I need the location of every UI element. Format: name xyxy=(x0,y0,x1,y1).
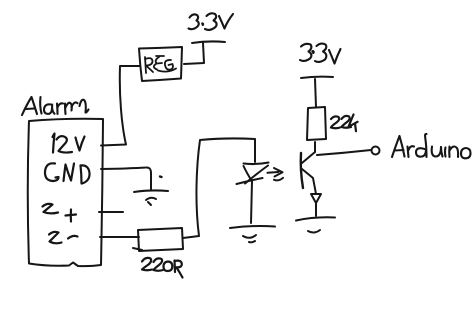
label 220R xyxy=(142,258,183,278)
transistor Q1 base bar xyxy=(301,153,303,188)
wire Z- pin to resistor 220R xyxy=(100,236,139,238)
power rail 3.3V (top) xyxy=(192,41,225,43)
wire LED cathode to ground xyxy=(251,181,252,223)
label Arduino xyxy=(392,134,471,158)
pin label Z- xyxy=(49,232,78,243)
label Alarm xyxy=(22,97,89,115)
power rail 3.3V (right) xyxy=(301,77,333,78)
node Arduino terminal circle xyxy=(372,147,380,155)
module Alarm box xyxy=(28,119,103,266)
wire emitter to ground xyxy=(315,203,317,216)
label 22k xyxy=(331,115,358,132)
wire REG input to Alarm 12V pin xyxy=(101,66,140,146)
ground (Q1 emitter) xyxy=(296,217,335,220)
LED light arrow xyxy=(268,171,279,174)
wire 3.3V rail to 22k xyxy=(315,79,316,107)
net 3.3V label (top) xyxy=(189,13,234,30)
transistor Q1 collector lead xyxy=(302,152,315,163)
wire Alarm GND pin to ground xyxy=(101,167,151,190)
net 3.3V label (right) xyxy=(300,44,341,64)
pin stub Z+ xyxy=(99,211,123,213)
pin label GND xyxy=(45,163,90,183)
ground (alarm GND) xyxy=(134,190,168,192)
pin label 12V xyxy=(53,134,85,153)
pin label Z+ xyxy=(43,204,77,222)
transistor Q1 emitter arrowhead xyxy=(311,194,321,203)
transistor Q1 emitter lead xyxy=(302,169,316,194)
resistor R1 220R xyxy=(138,228,183,251)
regulator U1 label REG (handwritten) xyxy=(145,56,176,73)
LED D1 xyxy=(244,163,269,165)
resistor R2 22k xyxy=(307,107,326,140)
wire collector node to Arduino terminal xyxy=(317,150,371,155)
ground (LED) xyxy=(230,226,275,228)
wire 220R to LED anode rail xyxy=(183,138,255,238)
wire 22k resistor to collector node xyxy=(314,142,316,152)
regulator U1 REG box xyxy=(139,47,182,81)
